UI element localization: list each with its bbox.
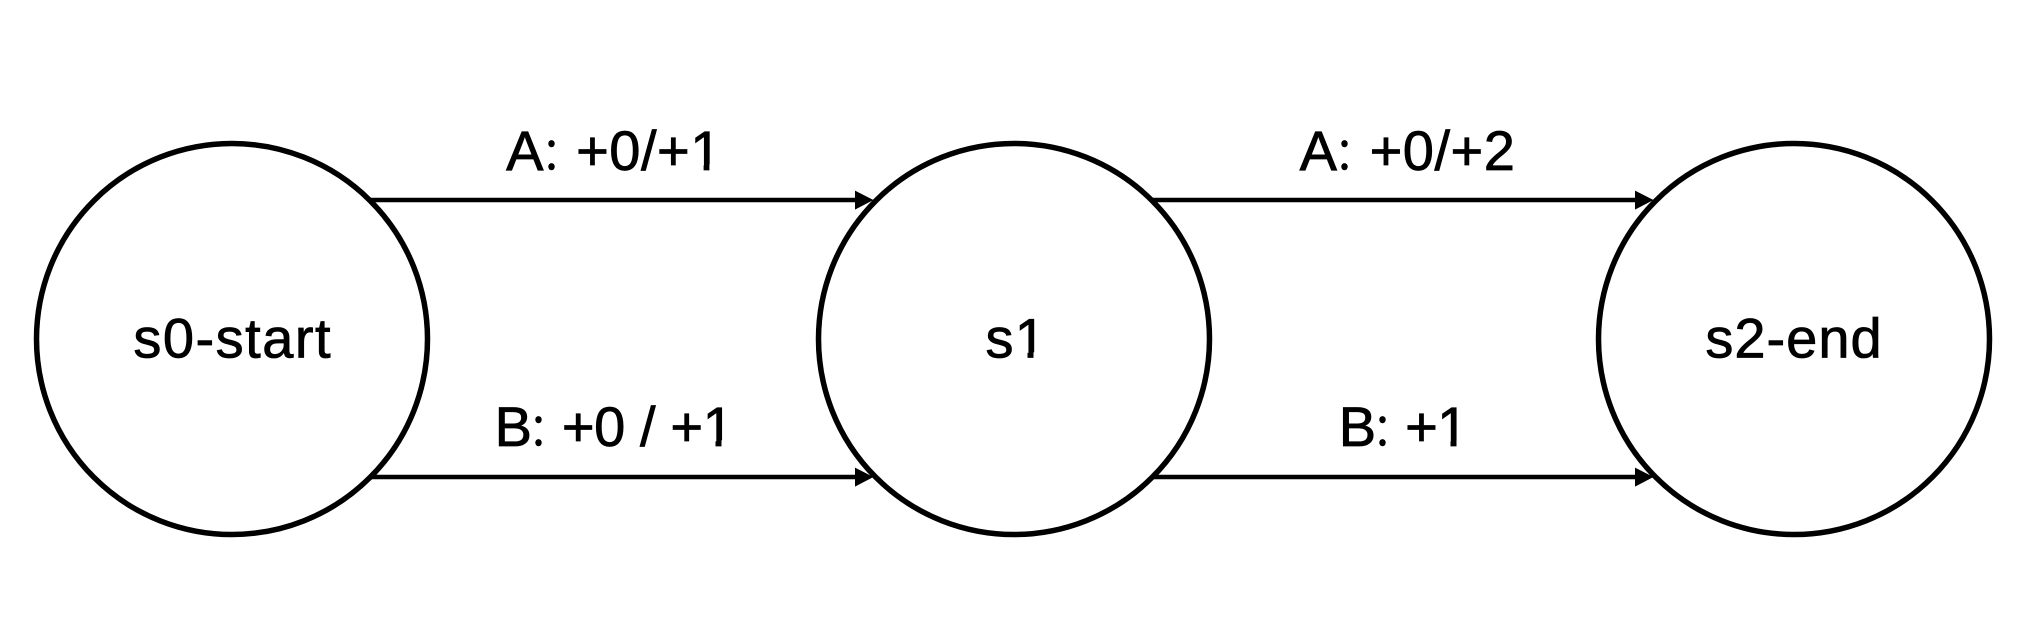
glyph fix: remove foot serif of digit 1 in state label s1 <box>1017 352 1046 360</box>
state s1 circle <box>819 144 1210 535</box>
svg-text:B: +1: B: +1 <box>1339 395 1468 458</box>
transition arrow s1->s2 on input B <box>1149 468 1654 487</box>
transition arrow s0->s1 on input B <box>366 468 873 487</box>
svg-text:A: +0/+2: A: +0/+2 <box>1300 119 1516 182</box>
svg-text:s2-end: s2-end <box>1705 307 1882 370</box>
glyph fix: round colon dots in label A: +0/+2 <box>1341 140 1349 171</box>
svg-text:A: +0/+1: A: +0/+1 <box>506 119 722 182</box>
glyph fix: round colon dots in label B: +0 / +1 <box>535 416 543 447</box>
svg-text:s0-start: s0-start <box>133 307 332 370</box>
glyph fix: remove foot serif of digit 1 in label B: +1 <box>1439 440 1468 448</box>
state s2-end circle <box>1599 144 1990 535</box>
glyph fix: round colon dots in label B: +1 <box>1379 416 1387 447</box>
glyph fix: remove foot serif of digit 1 in label B: +0 / +1 <box>705 440 734 448</box>
transition arrow s1->s2 on input A <box>1148 191 1654 210</box>
transition arrow s0->s1 on input A <box>368 191 873 210</box>
svg-text:B: +0 / +1: B: +0 / +1 <box>495 395 734 458</box>
glyph fix: remove foot serif of digit 1 in label A: +0/+1 <box>692 164 721 172</box>
glyph fix: round colon dots in label A: +0/+1 <box>548 140 556 171</box>
state s0-start circle <box>37 144 428 535</box>
svg-text:s1: s1 <box>986 307 1048 370</box>
